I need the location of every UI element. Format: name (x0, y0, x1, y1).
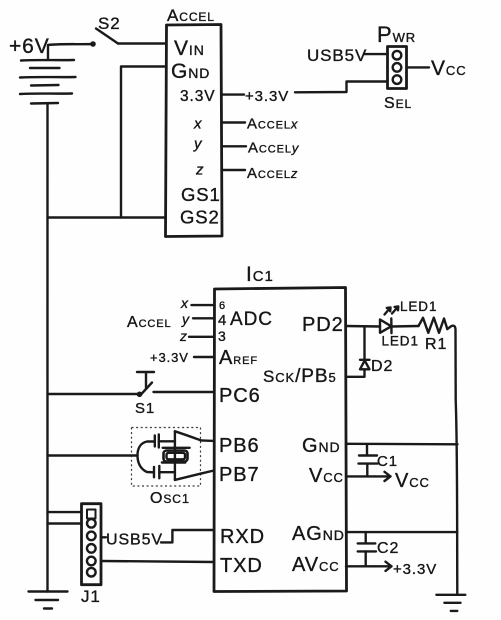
svg-text:USB5V: USB5V (307, 46, 367, 65)
svg-text:PB7: PB7 (219, 464, 260, 486)
svg-text:D2: D2 (371, 358, 393, 375)
svg-text:C2: C2 (377, 540, 399, 557)
svg-text:4: 4 (218, 312, 227, 329)
svg-text:TXD: TXD (220, 555, 263, 577)
svg-text:SCK/PB5: SCK/PB5 (263, 366, 337, 387)
svg-text:R1: R1 (425, 336, 447, 353)
svg-text:LED1: LED1 (382, 334, 419, 349)
svg-text:C1: C1 (377, 453, 398, 470)
svg-text:x: x (180, 295, 189, 311)
svg-text:PB6: PB6 (219, 435, 260, 457)
svg-text:x: x (193, 116, 202, 133)
svg-text:z: z (195, 162, 204, 179)
svg-text:ADC: ADC (230, 309, 273, 330)
svg-text:6: 6 (219, 300, 226, 312)
svg-text:3: 3 (218, 328, 227, 344)
svg-text:+3.3V: +3.3V (245, 88, 289, 105)
svg-text:+3.3V: +3.3V (393, 561, 437, 578)
svg-text:LED1: LED1 (400, 299, 437, 314)
svg-text:GS1: GS1 (181, 184, 221, 205)
svg-text:OSC1: OSC1 (150, 490, 190, 507)
svg-text:y: y (181, 311, 190, 327)
svg-text:RXD: RXD (220, 526, 265, 548)
svg-text:y: y (193, 136, 203, 153)
svg-text:+3.3V: +3.3V (150, 350, 189, 365)
svg-text:GS2: GS2 (180, 207, 220, 228)
svg-text:SEL: SEL (384, 95, 412, 112)
svg-text:AGND: AGND (292, 523, 345, 545)
svg-text:S2: S2 (98, 14, 121, 33)
svg-text:USB5V: USB5V (106, 532, 163, 549)
svg-text:PD2: PD2 (302, 314, 344, 336)
svg-text:S1: S1 (135, 400, 155, 417)
svg-text:z: z (179, 328, 188, 344)
svg-text:PC6: PC6 (219, 385, 261, 407)
svg-text:3.3V: 3.3V (180, 88, 216, 105)
svg-text:J1: J1 (81, 587, 101, 606)
svg-text:GND: GND (302, 435, 341, 457)
svg-text:+6V: +6V (9, 35, 50, 58)
